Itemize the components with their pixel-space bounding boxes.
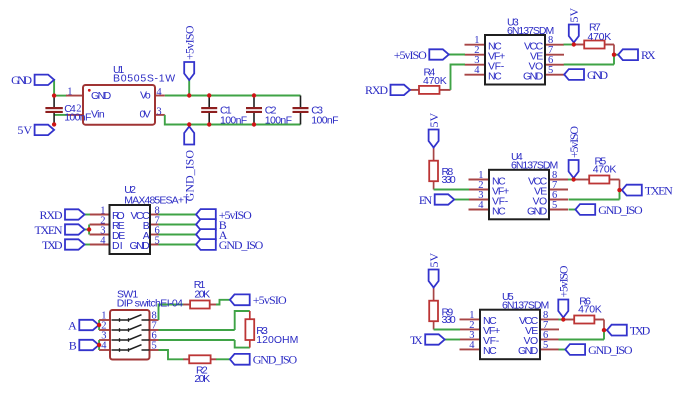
svg-text:0V: 0V <box>140 109 151 121</box>
svg-text:GND: GND <box>518 345 539 357</box>
svg-text:100nF: 100nF <box>311 114 338 126</box>
svg-text:Vin: Vin <box>91 109 105 121</box>
svg-text:DIP switchEI-04: DIP switchEI-04 <box>117 298 183 310</box>
svg-text:20K: 20K <box>194 373 210 385</box>
svg-text:GND: GND <box>527 205 548 217</box>
svg-text:5V: 5V <box>427 113 441 128</box>
svg-text:6N137SDM: 6N137SDM <box>511 160 558 172</box>
svg-text:6N137SDM: 6N137SDM <box>507 25 554 37</box>
svg-text:470K: 470K <box>423 75 447 87</box>
svg-text:GND: GND <box>91 90 112 102</box>
svg-text:RX: RX <box>641 48 656 62</box>
svg-text:GND_ISO: GND_ISO <box>588 343 633 357</box>
svg-text:GND_ISO: GND_ISO <box>253 353 298 367</box>
svg-text:TXD: TXD <box>42 238 63 252</box>
svg-text:B: B <box>69 338 77 352</box>
svg-text:4: 4 <box>100 235 106 246</box>
svg-text:RXD: RXD <box>365 83 388 97</box>
svg-text:330: 330 <box>442 314 456 326</box>
svg-text:100nF: 100nF <box>64 111 91 123</box>
svg-text:100nF: 100nF <box>220 114 247 126</box>
svg-text:Vo: Vo <box>140 90 151 102</box>
svg-text:+5vISO: +5vISO <box>567 126 581 158</box>
svg-text:GND: GND <box>587 68 608 82</box>
svg-text:DI: DI <box>112 240 123 252</box>
svg-text:GND_ISO: GND_ISO <box>219 238 264 252</box>
svg-text:TX: TX <box>410 333 423 347</box>
svg-text:5V: 5V <box>17 123 32 137</box>
svg-text:6N137SDM: 6N137SDM <box>502 300 549 312</box>
svg-text:330: 330 <box>442 174 456 186</box>
svg-text:470K: 470K <box>593 164 617 176</box>
svg-text:4: 4 <box>101 341 107 352</box>
svg-text:+5vISO: +5vISO <box>557 265 571 297</box>
svg-text:5: 5 <box>548 65 553 76</box>
svg-text:NC: NC <box>492 205 506 217</box>
svg-text:4: 4 <box>478 200 484 211</box>
svg-text:+5vISO: +5vISO <box>182 25 196 60</box>
svg-text:5: 5 <box>552 200 557 211</box>
svg-text:GND_ISO: GND_ISO <box>598 203 643 217</box>
svg-text:1: 1 <box>67 86 72 97</box>
svg-text:EN: EN <box>419 193 433 207</box>
svg-text:100nF: 100nF <box>265 114 292 126</box>
svg-text:TXD: TXD <box>630 323 651 337</box>
svg-text:GND: GND <box>11 73 32 87</box>
svg-text:B0505S-1W: B0505S-1W <box>113 72 175 84</box>
svg-text:NC: NC <box>483 345 497 357</box>
svg-text:470K: 470K <box>578 304 602 316</box>
svg-text:4: 4 <box>474 65 480 76</box>
svg-text:5V: 5V <box>427 253 441 268</box>
svg-text:5: 5 <box>543 340 548 351</box>
svg-text:MAX485ESA+T: MAX485ESA+T <box>124 195 190 207</box>
svg-text:NC: NC <box>488 71 502 83</box>
svg-text:TXEN: TXEN <box>645 183 673 197</box>
svg-text:GND: GND <box>130 240 151 252</box>
svg-text:5V: 5V <box>567 8 581 23</box>
svg-text:A: A <box>68 318 77 332</box>
svg-text:+5vSIO: +5vSIO <box>253 293 287 307</box>
svg-text:+5vISO: +5vISO <box>394 48 427 62</box>
svg-text:470K: 470K <box>588 31 612 43</box>
svg-text:GND: GND <box>523 71 544 83</box>
svg-text:20K: 20K <box>194 289 210 301</box>
svg-text:RXD: RXD <box>40 208 63 222</box>
svg-text:5: 5 <box>152 341 157 352</box>
svg-text:3: 3 <box>156 106 161 117</box>
svg-text:120OHM: 120OHM <box>256 334 298 346</box>
svg-text:5: 5 <box>155 235 160 246</box>
svg-text:4: 4 <box>156 87 162 98</box>
svg-text:4: 4 <box>469 340 475 351</box>
svg-text:TXEN: TXEN <box>35 223 63 237</box>
